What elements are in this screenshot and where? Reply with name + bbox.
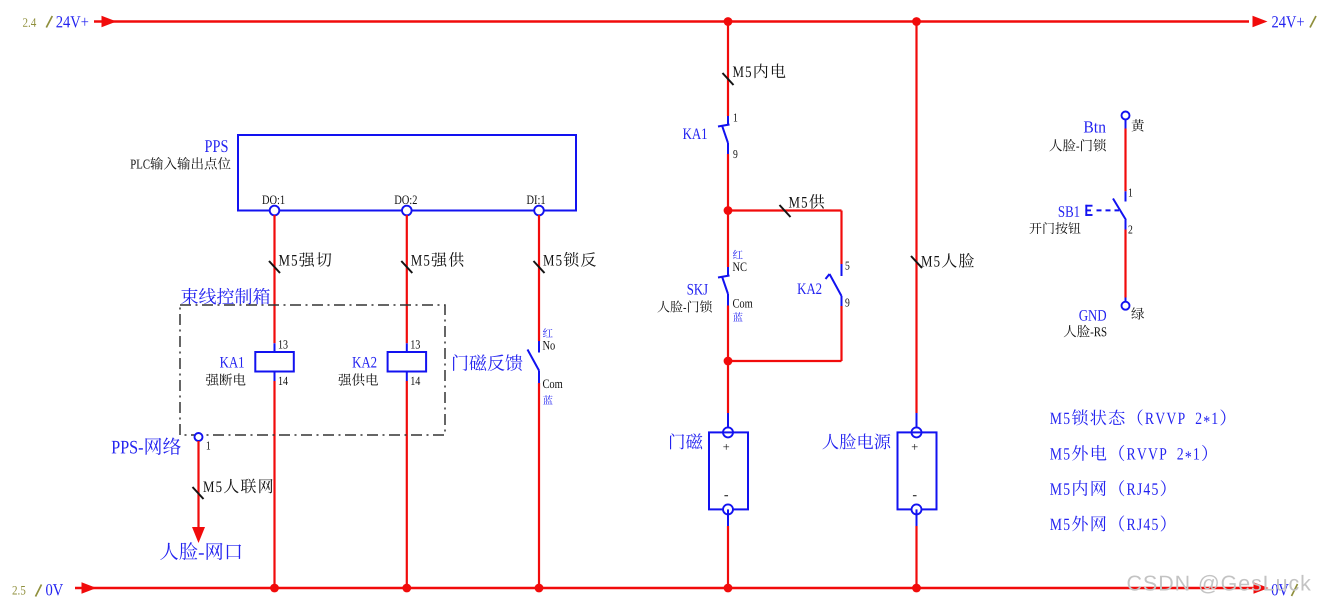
node GND — [1064, 302, 1144, 338]
node Btn — [1049, 112, 1144, 152]
cable marker M5人联网 — [193, 479, 273, 499]
junction M5供 bottom — [724, 357, 733, 366]
pin DO:1 — [262, 195, 284, 215]
junction 人脸电源/0V — [912, 584, 921, 593]
junction 24V+/M5内电 — [724, 17, 733, 26]
enclosure 束线控制箱 — [180, 288, 445, 435]
wire M5人联网 — [197, 441, 199, 529]
wire SKJ to 门磁 — [727, 306, 729, 429]
net label 2.4 / 24V+ (left) — [23, 16, 88, 28]
watermark CSDN @GesLuck — [1128, 575, 1311, 594]
wire DI:1 upper — [538, 215, 540, 341]
battery 门磁 — [670, 427, 748, 514]
wire KA1 coil to 0V — [273, 381, 275, 588]
battery 人脸电源 — [823, 427, 937, 514]
cable marker M5内电 — [723, 64, 786, 85]
net label 0V / (right) — [1272, 584, 1298, 596]
junction 门磁/0V — [724, 584, 733, 593]
net label 24V+ / (right) — [1272, 16, 1316, 28]
relay coil KA1 — [206, 340, 294, 386]
24V+ rail left arrow — [102, 16, 117, 28]
cable list M5外电 — [1050, 445, 1207, 461]
cable list M5锁状态 — [1050, 409, 1225, 425]
24V+ rail right arrow — [1253, 16, 1268, 28]
wire M5人脸 — [915, 22, 917, 429]
arrow to 人脸-网口 — [192, 527, 205, 543]
cable marker M5人脸 — [911, 253, 974, 268]
cable marker M5供 — [780, 194, 825, 217]
PLC box PPS — [131, 135, 576, 211]
cable list M5内网 — [1050, 480, 1165, 496]
wire 人脸电源 to 0V — [916, 509, 918, 588]
node PPS-网络 — [112, 433, 210, 455]
contact KA2 (pins 5,9) — [797, 262, 849, 307]
cable marker M5强切 — [269, 252, 331, 273]
cable marker M5强供 — [401, 252, 463, 273]
junction DI:1/0V — [535, 584, 544, 593]
label 门磁反馈 — [453, 354, 522, 371]
wire M5供 branch — [728, 211, 842, 265]
relay coil KA2 — [338, 340, 426, 386]
contact KA1 (pins 1,9) — [683, 114, 737, 159]
wire DO:2 to KA2 coil — [406, 215, 408, 343]
24V+ power rail — [94, 20, 1249, 22]
junction DO:1/0V — [270, 584, 279, 593]
contact SKJ (NC/Com) — [658, 211, 753, 322]
wire M5内电 — [727, 22, 729, 117]
wire DO:1 to KA1 coil — [273, 215, 275, 343]
junction 24V+/M5人脸 — [912, 17, 921, 26]
wire Btn to SB1 — [1125, 120, 1127, 192]
pin DI:1 — [527, 195, 545, 215]
0V power rail — [75, 587, 1254, 589]
wire KA2 coil to 0V — [406, 381, 408, 588]
label 人脸-网口 — [160, 542, 241, 560]
pin DO:2 — [395, 195, 417, 215]
cable marker M5锁反 — [534, 252, 596, 273]
0V rail left arrow — [82, 582, 97, 594]
wire KA2 contact to junction — [728, 306, 842, 361]
cable list M5外网 — [1050, 515, 1165, 531]
wire 门磁 to 0V — [727, 509, 729, 588]
button SB1 (开门按钮) — [1030, 189, 1133, 235]
0V rail right arrow — [1254, 582, 1269, 594]
junction DO:2/0V — [402, 584, 411, 593]
wire SB1 to GND — [1124, 230, 1126, 302]
switch 门磁反馈 (No/Com) — [528, 328, 563, 404]
net label 2.5 / 0V (left) — [12, 584, 63, 597]
junction M5供 top — [724, 206, 733, 215]
wire KA1 contact to junction — [727, 154, 729, 211]
wire DI:1 lower — [538, 383, 540, 588]
